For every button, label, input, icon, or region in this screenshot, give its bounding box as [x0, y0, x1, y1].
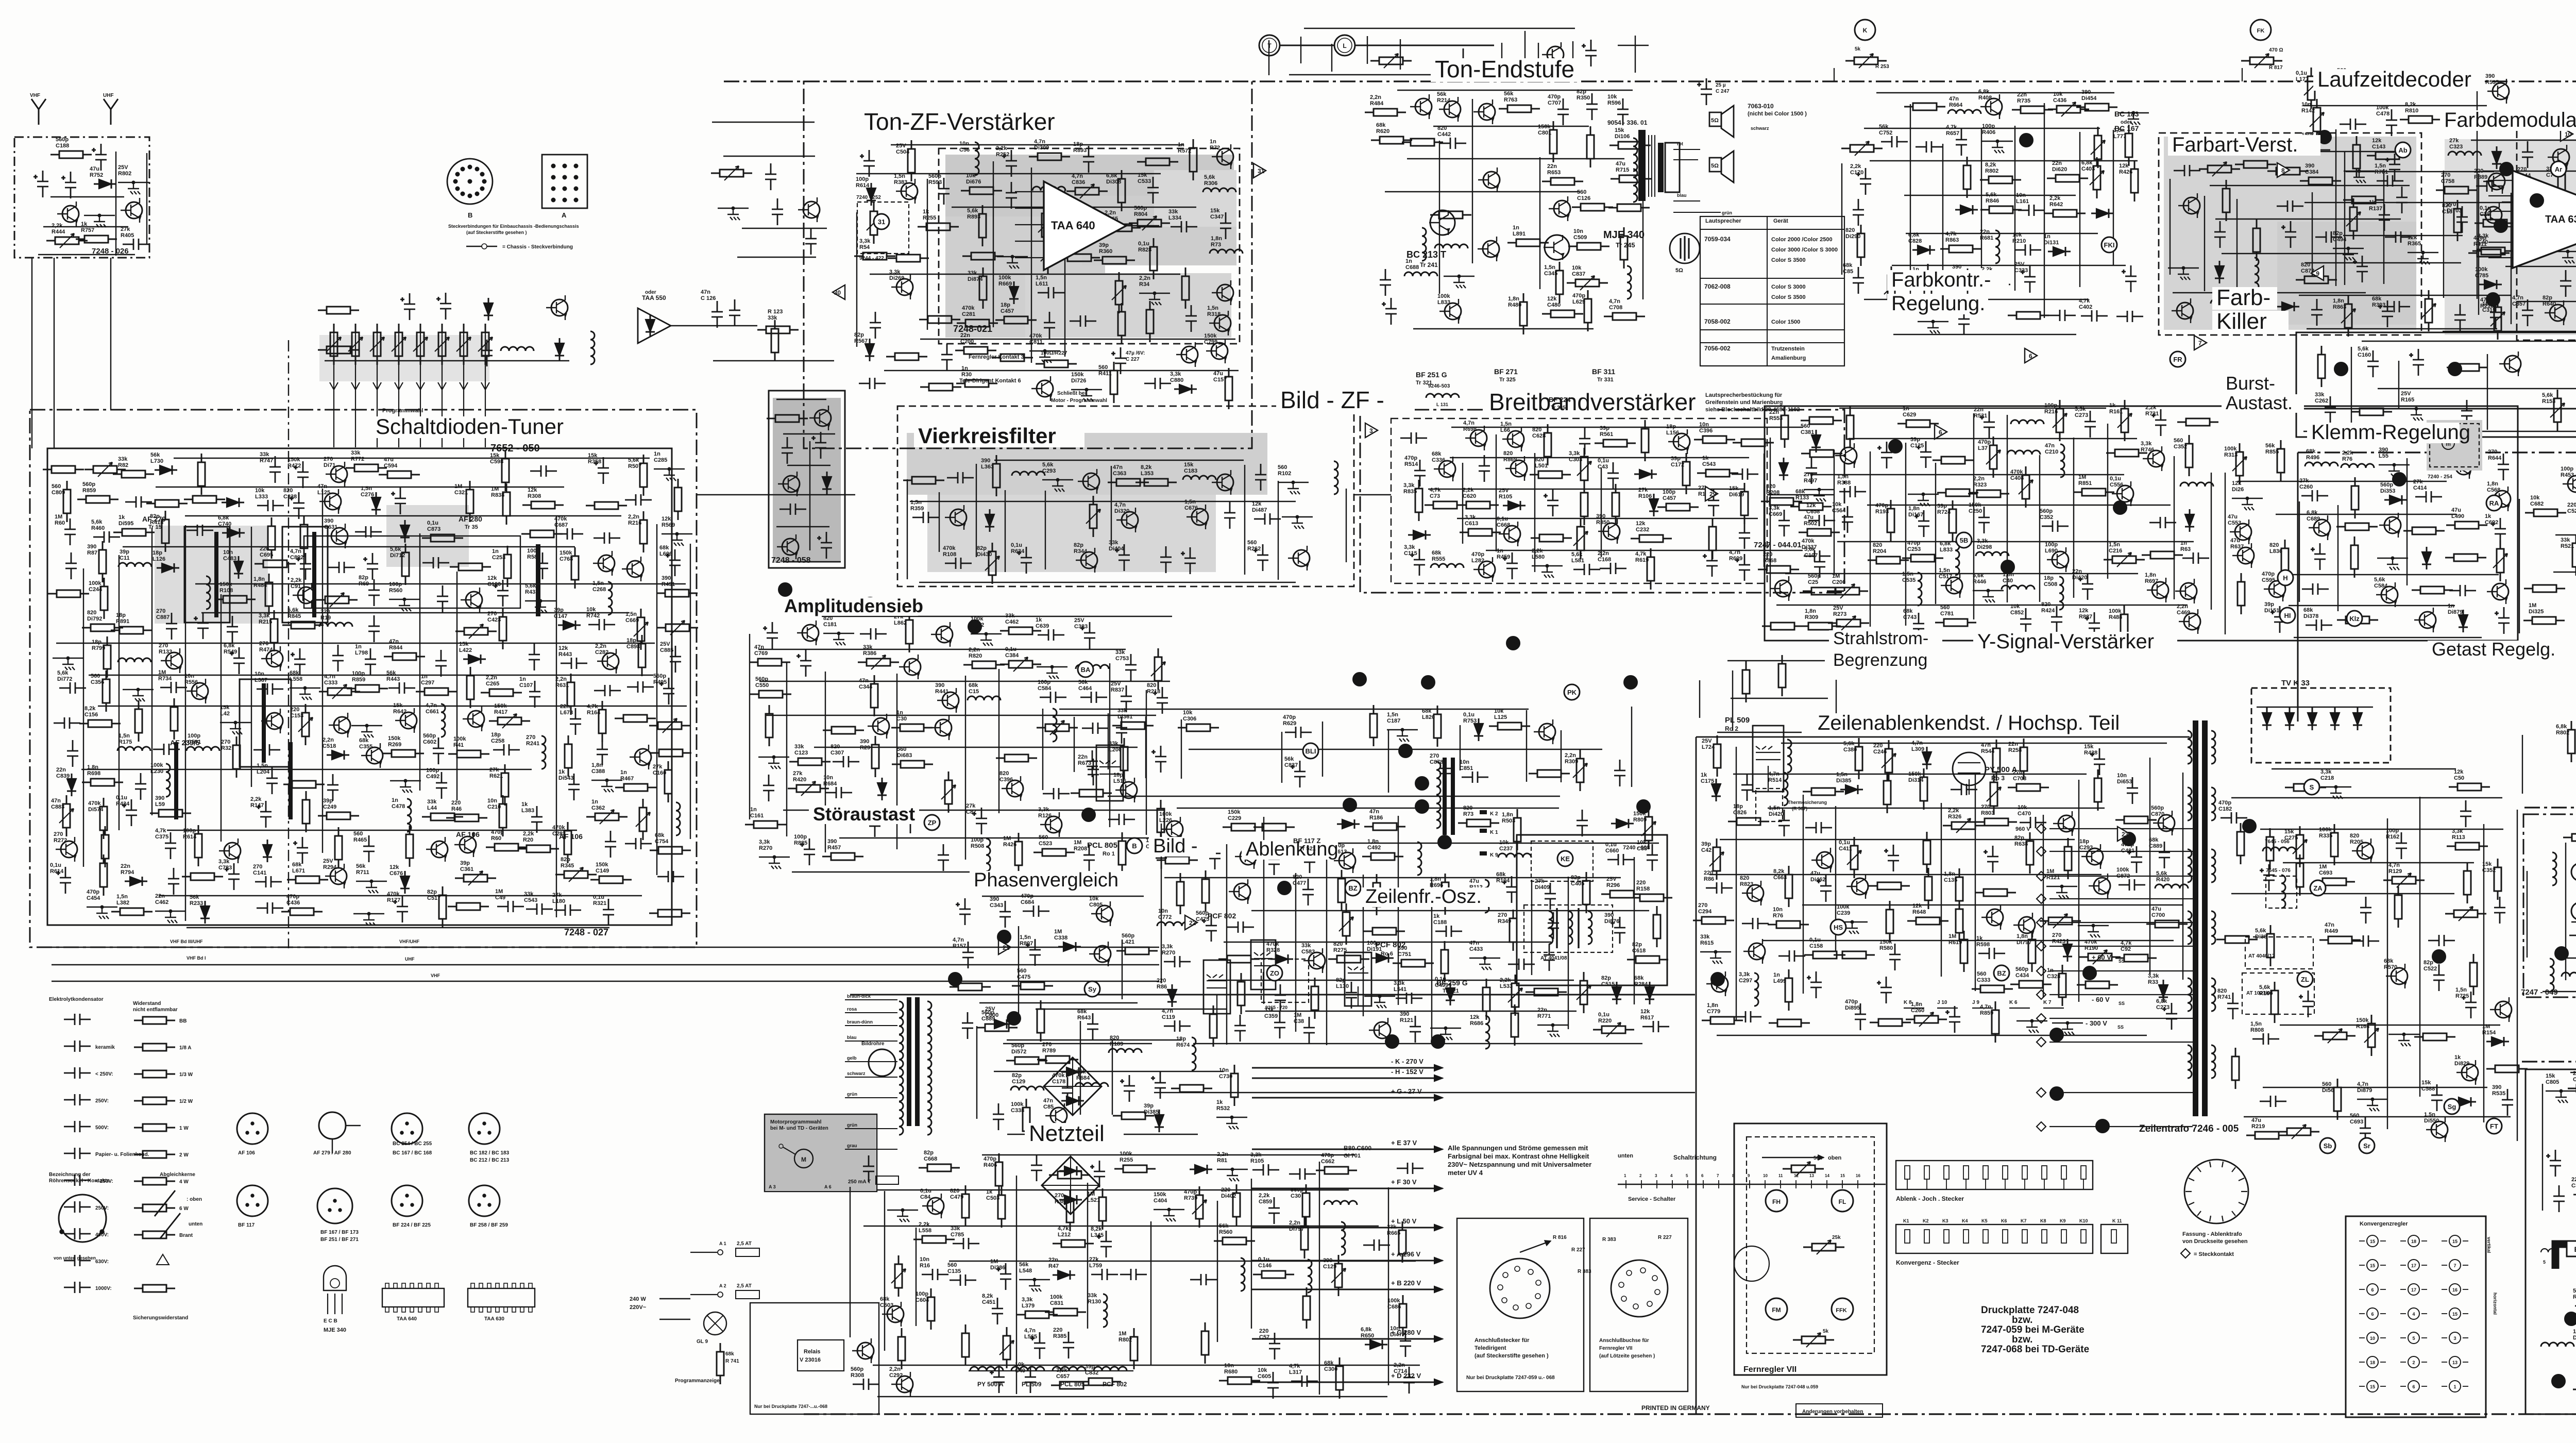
svg-text:56k: 56k	[1504, 91, 1514, 97]
svg-text:R272: R272	[54, 837, 67, 844]
svg-text:5: 5	[2412, 1336, 2415, 1341]
svg-text:1k: 1k	[2369, 199, 2376, 206]
resistor C849	[650, 752, 691, 754]
capacitor R460	[93, 531, 120, 543]
svg-text:R887: R887	[2079, 614, 2092, 620]
box tv k33	[2251, 688, 2391, 763]
svg-text:C338: C338	[1011, 1108, 1024, 1114]
transistor R714	[1181, 346, 1198, 363]
svg-text:27k: 27k	[1638, 487, 1648, 493]
capacitor Di446	[811, 432, 826, 459]
svg-text:4,7n: 4,7n	[1463, 420, 1475, 426]
svg-text:R643: R643	[1077, 1015, 1091, 1021]
resistor Di65	[888, 258, 929, 259]
svg-text:L180: L180	[552, 898, 565, 904]
resistor R838	[506, 483, 507, 525]
transistor C126	[635, 749, 651, 765]
svg-text:820: 820	[1845, 227, 1855, 233]
svg-text:2,2n: 2,2n	[969, 647, 980, 653]
svg-text:1M: 1M	[2046, 868, 2054, 875]
svg-text:R296: R296	[1606, 882, 1620, 888]
svg-text:390: 390	[1604, 912, 1614, 918]
svg-text:R508: R508	[971, 843, 984, 849]
svg-text:C508: C508	[2044, 581, 2057, 588]
svg-text:BF 251 G: BF 251 G	[1416, 371, 1447, 379]
svg-text:C604: C604	[916, 1297, 929, 1303]
svg-text:rot: rot	[1677, 141, 1683, 146]
capacitor R472	[294, 461, 309, 488]
svg-text:C13: C13	[2442, 209, 2452, 215]
svg-text:C811: C811	[1029, 339, 1043, 345]
svg-text:33k: 33k	[1115, 649, 1125, 656]
svg-text:390: 390	[935, 682, 944, 689]
svg-text:Di829: Di829	[2454, 1061, 2469, 1067]
resistor R76	[1768, 924, 1809, 926]
capacitor R741	[2227, 993, 2239, 1019]
svg-text:100k: 100k	[2109, 608, 2122, 614]
svg-text:5k: 5k	[1855, 46, 1861, 52]
svg-text:C306: C306	[1183, 716, 1196, 722]
svg-text:C662: C662	[1321, 1159, 1334, 1165]
svg-text:C336: C336	[1432, 457, 1445, 463]
transistor C668	[1504, 526, 1520, 542]
svg-text:C708: C708	[2013, 776, 2026, 782]
wire	[53, 658, 83, 659]
svg-text:AF 106: AF 106	[238, 1150, 255, 1156]
svg-text:BC 167: BC 167	[2114, 124, 2139, 132]
svg-text:C359: C359	[2571, 1183, 2576, 1189]
diode R752	[94, 179, 116, 189]
resistor C333	[1972, 988, 2013, 990]
svg-text:Klemm-Regelung: Klemm-Regelung	[2311, 421, 2470, 444]
svg-text:4,7n: 4,7n	[1034, 139, 1045, 145]
resistor R680	[1219, 1380, 1260, 1382]
svg-text:R82: R82	[118, 462, 128, 468]
box 7247-034	[2296, 332, 2576, 437]
svg-text:A 1: A 1	[719, 1241, 726, 1246]
capacitor Di151	[2270, 606, 2285, 633]
svg-text:3: 3	[2453, 1336, 2456, 1341]
wire	[1457, 518, 1758, 519]
svg-text:470 Ω: 470 Ω	[2269, 47, 2283, 53]
svg-text:R449: R449	[2325, 928, 2338, 934]
svg-text:270: 270	[2488, 449, 2497, 455]
capacitor R97	[1087, 750, 1098, 777]
wire	[1973, 590, 2004, 591]
svg-text:12k: 12k	[1640, 1009, 1650, 1015]
svg-text:Farbkontr.-: Farbkontr.-	[1891, 269, 1991, 291]
resistor Di874	[982, 267, 984, 309]
svg-text:C809: C809	[52, 490, 65, 496]
svg-text:- K - 270 V: - K - 270 V	[1391, 1058, 1423, 1065]
svg-text:1,5n: 1,5n	[1387, 712, 1398, 718]
resistor C123	[789, 761, 831, 763]
svg-text:R19: R19	[320, 615, 331, 621]
resistor L521	[1102, 1188, 1104, 1230]
svg-text:C268: C268	[592, 586, 606, 593]
svg-text:C779: C779	[1707, 1009, 1720, 1015]
svg-text:R406: R406	[984, 1162, 997, 1168]
box netztrafo 7247-049	[2523, 814, 2576, 997]
transistor L375	[2058, 815, 2075, 832]
wire	[1537, 1025, 1568, 1026]
svg-text:L309: L309	[1911, 746, 1924, 752]
svg-text:C451: C451	[982, 1299, 995, 1305]
svg-text:18p: 18p	[1113, 772, 1123, 778]
svg-text:270: 270	[1042, 1042, 1052, 1048]
svg-text:FR: FR	[2173, 356, 2182, 363]
svg-text:BF 224 / BF 225: BF 224 / BF 225	[393, 1222, 431, 1228]
svg-text:470k: 470k	[962, 305, 975, 311]
svg-text:Di462: Di462	[1810, 877, 1825, 883]
svg-text:C141: C141	[253, 870, 266, 876]
svg-text:R420: R420	[2156, 877, 2170, 883]
svg-text:VHF Bd I: VHF Bd I	[187, 955, 206, 961]
resistor C161	[745, 824, 786, 826]
svg-text:Di337: Di337	[1802, 544, 1817, 550]
svg-text:R161: R161	[2109, 409, 2123, 415]
svg-text:560p: 560p	[1122, 933, 1134, 939]
wire	[1905, 443, 1906, 626]
wire	[994, 1071, 1224, 1072]
svg-text:C361: C361	[460, 866, 473, 872]
coil C632	[1787, 740, 1791, 773]
svg-text:R426: R426	[1003, 842, 1016, 848]
diode C839	[67, 774, 76, 796]
svg-text:R631: R631	[555, 682, 569, 689]
svg-text:R323: R323	[1973, 482, 1987, 488]
svg-text:12k: 12k	[487, 575, 497, 581]
svg-text:- 300 V: - 300 V	[2086, 1019, 2107, 1027]
ground	[1846, 922, 1859, 934]
capacitor C178	[1062, 1077, 1073, 1104]
capacitor L759	[1091, 1269, 1118, 1280]
capacitor R465	[363, 835, 375, 862]
svg-text:30: 30	[834, 289, 841, 296]
svg-text:C414: C414	[2413, 485, 2427, 491]
capacitor R674	[1151, 1072, 1166, 1099]
svg-text:0,1u: 0,1u	[1598, 1012, 1609, 1018]
transistor C135	[2019, 917, 2035, 933]
resistor R335	[2334, 824, 2335, 865]
svg-text:820: 820	[1333, 941, 1343, 947]
svg-text:Di792: Di792	[87, 616, 102, 622]
resistor R859	[1995, 1001, 1996, 1043]
wire	[1251, 910, 1649, 911]
transistor C791	[857, 1343, 874, 1359]
svg-text:1,8n: 1,8n	[2487, 481, 2498, 487]
svg-text:Steckverbindungen für Einbau: Steckverbindungen für Einbauchassis -Bed…	[448, 224, 579, 229]
svg-text:C826: C826	[1733, 810, 1747, 816]
resistor R54	[854, 256, 895, 257]
capacitor R617	[1642, 1021, 1669, 1032]
capacitor C107	[529, 681, 540, 708]
potentiometer Di190	[1037, 727, 1078, 729]
wire	[1811, 474, 2124, 475]
capacitor R813	[194, 612, 209, 639]
svg-text:Röhrensockel - Kontakte: Röhrensockel - Kontakte	[49, 1178, 110, 1184]
svg-text:R210: R210	[2012, 238, 2026, 244]
svg-text:C363: C363	[1113, 471, 1126, 477]
svg-text:C475: C475	[1017, 974, 1030, 980]
wire	[1444, 276, 1475, 277]
svg-text:C338: C338	[283, 494, 297, 500]
svg-text:1M: 1M	[1054, 929, 1062, 935]
box farbart	[2159, 133, 2421, 335]
transistor C689	[2314, 519, 2330, 536]
node	[605, 779, 608, 782]
svg-text:47u: 47u	[1213, 371, 1223, 377]
svg-text:2,2n: 2,2n	[486, 675, 497, 681]
potentiometer C669	[640, 609, 642, 650]
svg-text:150k: 150k	[494, 703, 507, 709]
svg-text:R219: R219	[2251, 1123, 2265, 1130]
resistor R799	[107, 636, 108, 678]
svg-text:L37: L37	[1978, 445, 1988, 451]
svg-text:R553: R553	[1769, 415, 1783, 422]
transistor C870	[2158, 815, 2175, 831]
transistor R471	[1840, 447, 1857, 464]
capacitor R110	[1070, 315, 1096, 327]
svg-text:+ C 280 V: + C 280 V	[1391, 1329, 1421, 1336]
wire	[1281, 732, 1282, 783]
resistor C100	[103, 854, 105, 896]
capacitor Di420	[1778, 810, 1790, 836]
svg-text:3,3k: 3,3k	[1465, 514, 1476, 521]
wire	[1108, 713, 1109, 769]
svg-text:R193: R193	[1875, 509, 1889, 515]
resistor R716	[767, 418, 808, 420]
transistor C292	[896, 1376, 913, 1392]
svg-text:1n: 1n	[1903, 406, 1909, 412]
transistor L156	[1673, 433, 1690, 450]
coil R130	[1103, 1294, 1107, 1327]
coil R485	[1417, 842, 1421, 875]
svg-text:FT: FT	[2490, 1122, 2498, 1130]
svg-text:5,6k: 5,6k	[2358, 346, 2369, 352]
svg-text:230V~ Netzspannung und mit: 230V~ Netzspannung und mit Universalmete…	[1448, 1161, 1591, 1168]
wire	[1364, 996, 1395, 997]
svg-text:R863: R863	[1945, 237, 1959, 243]
svg-text:C229: C229	[1228, 815, 1241, 821]
svg-text:Nur bei Druckplatte 7247-...u.: Nur bei Druckplatte 7247-...u.-068	[754, 1404, 827, 1409]
resistor C543	[1697, 473, 1738, 474]
svg-text:560p: 560p	[981, 1010, 994, 1016]
svg-text:R496: R496	[2306, 455, 2319, 461]
svg-text:Di676: Di676	[966, 179, 981, 185]
svg-text:560p: 560p	[851, 1366, 863, 1372]
node	[1167, 1208, 1171, 1211]
wire	[2046, 886, 2077, 887]
svg-text:1n: 1n	[1497, 548, 1503, 554]
resistor R127	[1850, 407, 1851, 448]
ground	[1226, 1117, 1239, 1129]
wire	[776, 399, 826, 400]
wire	[221, 594, 222, 842]
diode R328	[1270, 954, 1293, 964]
potentiometer C224	[898, 1255, 900, 1297]
resistor C157	[1228, 368, 1230, 409]
transistor Di728	[2495, 1001, 2512, 1018]
svg-text:4,7n: 4,7n	[2512, 295, 2523, 301]
svg-text:250V:: 250V:	[95, 1098, 109, 1104]
resistor R387	[1070, 1190, 1071, 1231]
wire	[2039, 455, 2040, 602]
svg-text:52: 52	[2086, 969, 2094, 978]
svg-text:R807: R807	[1020, 941, 1033, 947]
node	[1153, 292, 1156, 295]
resistor C300	[1339, 1357, 1341, 1399]
svg-text:C383: C383	[1074, 624, 1088, 630]
svg-text:100k: 100k	[453, 736, 466, 742]
diode R233	[200, 901, 210, 924]
svg-text:Di385: Di385	[1144, 1109, 1159, 1115]
ground	[94, 215, 106, 227]
svg-text:L820: L820	[1422, 714, 1435, 720]
svg-text:L611: L611	[1036, 281, 1048, 287]
node	[668, 467, 671, 471]
potentiometer R60	[455, 631, 497, 632]
svg-text:C785: C785	[951, 1232, 964, 1238]
node	[1292, 481, 1295, 484]
svg-text:C30: C30	[1291, 1193, 1301, 1199]
potentiometer R190	[2079, 957, 2121, 958]
resistor C676	[2106, 452, 2147, 454]
wire	[927, 179, 928, 330]
node	[1714, 950, 1717, 953]
svg-text:6,8k: 6,8k	[2307, 510, 2318, 516]
svg-text:560: 560	[897, 746, 906, 752]
svg-text:R388: R388	[1837, 480, 1851, 486]
resistor R465	[105, 826, 106, 867]
capacitor C553	[1190, 1274, 1217, 1285]
capacitor L515	[1363, 1239, 1390, 1251]
svg-text:KE: KE	[1561, 855, 1570, 863]
resistor C385	[1373, 705, 1375, 746]
svg-text:K1: K1	[1903, 1218, 1909, 1223]
resistor C30	[891, 727, 933, 729]
svg-text:AF 239/5: AF 239/5	[170, 739, 200, 747]
svg-text:11: 11	[1778, 1173, 1783, 1178]
ground	[299, 688, 312, 700]
svg-text:C470: C470	[2018, 811, 2031, 817]
capacitor R750	[2260, 1096, 2286, 1107]
svg-text:R595: R595	[2485, 79, 2499, 86]
svg-text:33k: 33k	[951, 1226, 960, 1232]
resistor C657	[1051, 1385, 1092, 1386]
capacitor R480	[905, 807, 916, 833]
capacitor L611	[1038, 287, 1064, 298]
transistor L443	[1483, 241, 1499, 257]
transistor R205	[2357, 843, 2374, 859]
node	[539, 599, 542, 602]
svg-text:220V~: 220V~	[630, 1304, 647, 1311]
capacitor L798	[365, 648, 376, 675]
svg-text:C503: C503	[986, 1195, 999, 1201]
svg-text:1,8n: 1,8n	[591, 762, 603, 768]
capacitor C492	[436, 772, 447, 799]
wire	[952, 207, 1196, 208]
resistor C695	[255, 563, 296, 565]
svg-text:6,8k: 6,8k	[2081, 160, 2093, 166]
capacitor L137	[1185, 305, 1197, 332]
capacitor C414	[2415, 491, 2442, 502]
capacitor Di568	[1206, 843, 1221, 869]
svg-text:C689: C689	[2307, 516, 2320, 522]
svg-text:R408: R408	[1978, 95, 1992, 101]
capacitor C442	[1439, 138, 1466, 149]
wire	[887, 1210, 918, 1211]
capacitor C590	[125, 496, 152, 508]
svg-text:C457: C457	[1001, 308, 1014, 314]
capacitor R332	[1548, 912, 1559, 939]
svg-text:Di595: Di595	[118, 521, 133, 527]
svg-text:R846: R846	[1986, 198, 1999, 204]
wire	[456, 572, 457, 800]
capacitor C273	[2084, 411, 2096, 438]
svg-text:47µ /6V:: 47µ /6V:	[1126, 350, 1145, 356]
svg-text:Tr 621: Tr 621	[1443, 988, 1459, 994]
resistor C352	[2497, 859, 2499, 900]
svg-text:Di430: Di430	[977, 551, 992, 558]
svg-text:C250: C250	[1969, 508, 1982, 514]
resistor R802	[1133, 1328, 1135, 1369]
svg-text:7: 7	[2453, 1263, 2456, 1268]
svg-text:46: 46	[1010, 1015, 1019, 1023]
potentiometer R822	[1047, 233, 1049, 275]
svg-text:1000V:: 1000V:	[95, 1286, 112, 1291]
capacitor C182	[2221, 812, 2247, 824]
resistor C149	[590, 879, 632, 881]
wire	[1388, 730, 1389, 793]
svg-text:R108: R108	[943, 551, 956, 558]
resistor R886	[2354, 477, 2356, 518]
svg-text:2: 2	[2412, 1360, 2415, 1365]
wire	[2073, 438, 2074, 598]
svg-text:3,3k: 3,3k	[1769, 505, 1780, 511]
svg-text:270: 270	[1804, 472, 1813, 478]
svg-text:R642: R642	[2049, 202, 2063, 208]
shading	[945, 155, 1234, 224]
capacitor R113	[2428, 935, 2455, 946]
potentiometer R109	[1583, 972, 1585, 1013]
resistor R219	[2246, 1135, 2287, 1136]
svg-text:Di269: Di269	[889, 275, 904, 281]
svg-text:820: 820	[2442, 203, 2451, 209]
svg-text:R502: R502	[1804, 521, 1817, 527]
svg-text:45: 45	[1000, 933, 1009, 942]
svg-text:ZL: ZL	[2301, 976, 2309, 983]
resistor R720	[303, 516, 305, 557]
capacitor C785	[953, 1238, 979, 1249]
capacitor R629	[1285, 727, 1312, 738]
svg-text:470p: 470p	[1907, 540, 1920, 546]
svg-text:R802: R802	[118, 171, 131, 177]
resistor C889	[976, 1027, 1018, 1029]
svg-text:Motorprogrammwahl: Motorprogrammwahl	[770, 1119, 822, 1125]
resistor R529	[2354, 536, 2355, 578]
coil C187	[1627, 266, 1631, 299]
svg-text:Greifenstein und Marienburg: Greifenstein und Marienburg	[1705, 399, 1783, 406]
capacitor C852	[2020, 608, 2031, 635]
svg-text:25 µ: 25 µ	[1716, 82, 1726, 88]
capacitor R255	[605, 831, 616, 858]
svg-text:15: 15	[2370, 1384, 2375, 1389]
resistor R845	[282, 625, 324, 626]
svg-text:0,1u: 0,1u	[2110, 476, 2121, 482]
svg-text:C157: C157	[1213, 377, 1227, 383]
wire	[1462, 463, 1463, 544]
